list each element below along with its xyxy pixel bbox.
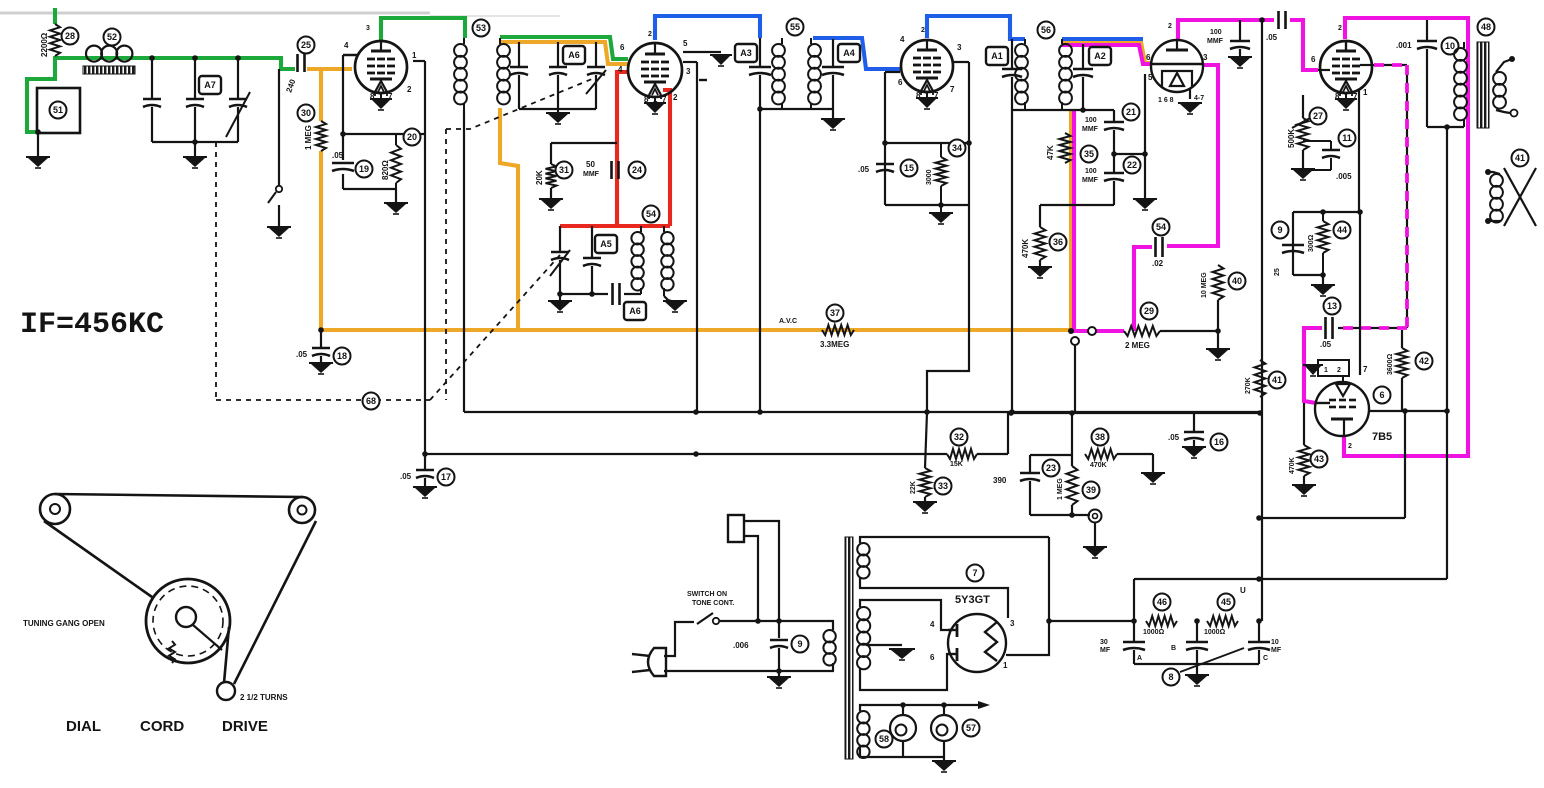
- svg-text:30: 30: [1100, 639, 1108, 646]
- svg-text:25: 25: [301, 40, 311, 50]
- ref circle 9: [792, 636, 809, 653]
- IF transformer 53 primary coil: [454, 44, 467, 57]
- svg-text:5Y3GT: 5Y3GT: [955, 594, 990, 606]
- box label A1: [986, 47, 1008, 65]
- svg-text:3000: 3000: [926, 169, 933, 185]
- svg-text:A5: A5: [600, 239, 612, 249]
- svg-text:A3: A3: [740, 48, 752, 58]
- svg-text:2: 2: [1348, 443, 1352, 450]
- resistor R39 1MEG: [1071, 413, 1073, 466]
- svg-text:1000Ω: 1000Ω: [1204, 629, 1226, 636]
- capacitor C11 .005: [1303, 140, 1331, 142]
- output jack connector: [1072, 514, 1090, 516]
- filter bottom rail and ground: [1134, 663, 1259, 665]
- svg-text:2 MEG: 2 MEG: [1125, 341, 1150, 350]
- resistor R42 3600 ohm: [1401, 330, 1403, 348]
- pilot lamp 57: [931, 715, 957, 741]
- V3 screen jog to B- rail: [927, 330, 969, 412]
- svg-text:A: A: [1137, 655, 1142, 662]
- svg-text:10: 10: [1271, 639, 1279, 646]
- resistor R45 1000 ohm: [1207, 616, 1238, 626]
- ref circle 48: [1478, 19, 1495, 36]
- ref circle 23: [1043, 460, 1060, 477]
- phono jack box: [728, 515, 744, 542]
- IF53 cap bottom rail with ground: [519, 108, 596, 110]
- switch to ground: [278, 69, 280, 185]
- svg-text:15: 15: [904, 163, 914, 173]
- svg-text:1: 1: [1324, 367, 1328, 374]
- oscillator coil 54 primary: [631, 232, 643, 244]
- svg-text:470K: 470K: [1090, 462, 1107, 469]
- ref circle 41: [1269, 372, 1286, 389]
- ref circle 6: [1374, 387, 1391, 404]
- svg-text:3: 3: [1010, 619, 1015, 628]
- oscillator padder capacitor series: [560, 293, 608, 295]
- svg-text:57: 57: [966, 723, 976, 733]
- svg-text:A7: A7: [204, 80, 216, 90]
- ref circle 24: [629, 162, 646, 179]
- svg-text:54: 54: [1156, 222, 1166, 232]
- switch to transformer wire: [719, 620, 834, 622]
- svg-text:7: 7: [972, 568, 977, 578]
- ref circle 55: [787, 19, 804, 36]
- box label A5: [595, 235, 617, 253]
- ref circle 43: [1311, 451, 1328, 468]
- svg-text:22K: 22K: [910, 481, 917, 494]
- ref circle 52: [104, 29, 121, 46]
- svg-text:SWITCH ON: SWITCH ON: [687, 591, 727, 598]
- AVC resistor R37 3.3MEG: [822, 325, 854, 335]
- fixed capacitor oscillator x592: [591, 226, 593, 257]
- oscillator coil 54 secondary: [661, 232, 673, 244]
- power switch: [713, 618, 719, 624]
- dial cord drive right pulley: [289, 497, 315, 523]
- wire orange AVC bus horizontal: [321, 328, 1071, 332]
- svg-text:MMF: MMF: [583, 171, 600, 178]
- svg-text:18: 18: [337, 351, 347, 361]
- svg-text:35: 35: [1084, 149, 1094, 159]
- rectifier output to filter: [1006, 537, 1049, 655]
- svg-text:8: 8: [1168, 672, 1173, 682]
- svg-text:50: 50: [586, 160, 595, 169]
- output transformer secondary: [1493, 72, 1506, 85]
- tube V3 IF amplifier: [901, 40, 953, 92]
- resistor R29 2MEG volume control: [1124, 326, 1160, 336]
- capacitor C17 .05: [424, 454, 426, 469]
- IF transformer 53 secondary coil: [497, 44, 510, 57]
- ref circle 19: [356, 161, 373, 178]
- ref circle 16: [1211, 434, 1228, 451]
- wire orange IF53 secondary return: [500, 108, 518, 329]
- ground under coil 54 secondary: [664, 296, 675, 302]
- svg-text:.05: .05: [858, 165, 870, 174]
- filter cap A 30MF: [1133, 621, 1135, 641]
- capacitor IF56 secondary side A2: [1082, 44, 1084, 68]
- svg-text:55: 55: [790, 22, 800, 32]
- svg-text:100: 100: [1210, 29, 1222, 36]
- speaker voice coil 41: [1490, 174, 1503, 187]
- HV center tap ground: [866, 644, 902, 646]
- svg-text:MF: MF: [1271, 647, 1282, 654]
- resistor R38 470K: [1085, 449, 1117, 459]
- svg-text:A.V.C: A.V.C: [779, 318, 797, 325]
- ref circle 35: [1081, 146, 1098, 163]
- svg-text:13: 13: [1327, 301, 1337, 311]
- capacitor C15 .05: [876, 163, 894, 166]
- ref circle 41 speaker: [1512, 150, 1529, 167]
- svg-text:4: 4: [900, 35, 905, 44]
- svg-text:3600Ω: 3600Ω: [1387, 353, 1394, 375]
- svg-text:36: 36: [1053, 237, 1063, 247]
- IF transformer 55 primary coil: [772, 44, 785, 57]
- ground below antenna box: [37, 132, 39, 158]
- svg-text:1 MEG: 1 MEG: [1057, 478, 1064, 500]
- tube V4 detector first audio: [1151, 40, 1203, 92]
- svg-text:33: 33: [938, 481, 948, 491]
- capacitor IF55 primary side: [759, 38, 761, 66]
- wire orange IF56 return to AVC: [1069, 110, 1073, 330]
- svg-text:6: 6: [1311, 55, 1316, 64]
- svg-text:39: 39: [1086, 485, 1096, 495]
- capacitor C22 100MMF: [1113, 154, 1115, 172]
- ref circle 13: [1324, 298, 1341, 315]
- capacitor 100MMF detector plate: [1239, 20, 1241, 40]
- antenna box 51: [37, 88, 80, 133]
- svg-text:9: 9: [1277, 225, 1282, 235]
- svg-text:.006: .006: [733, 641, 749, 650]
- power transformer core: [845, 537, 853, 759]
- capacitor C23 390MMF: [1029, 455, 1031, 472]
- wire x464 long vertical to B- rail: [463, 110, 465, 412]
- ref circle 28: [62, 28, 79, 45]
- ref circle 46: [1154, 594, 1171, 611]
- svg-text:4: 4: [618, 65, 623, 74]
- ref circle 11: [1339, 130, 1356, 147]
- filter network rails: [1134, 578, 1447, 580]
- svg-text:2: 2: [1168, 23, 1172, 30]
- svg-text:4: 4: [930, 620, 935, 629]
- capacitor C9 .006 line: [778, 621, 780, 638]
- svg-text:6: 6: [898, 78, 903, 87]
- svg-text:6: 6: [930, 653, 935, 662]
- svg-text:17: 17: [441, 472, 451, 482]
- svg-text:56: 56: [1041, 25, 1051, 35]
- svg-text:390: 390: [993, 476, 1007, 485]
- capacitor to ground x195: [194, 58, 196, 99]
- svg-text:40: 40: [1232, 276, 1242, 286]
- bus y454: [425, 453, 947, 455]
- wire orange AVC vertical from resistor 30: [319, 151, 323, 330]
- svg-text:6: 6: [620, 43, 625, 52]
- resistor R20 820 ohm cathode: [391, 145, 401, 183]
- svg-text:A6: A6: [568, 50, 580, 60]
- resistor R32 15K: [947, 449, 977, 459]
- variable tuning capacitor x238: [237, 58, 239, 99]
- svg-text:25: 25: [1274, 268, 1281, 276]
- tuning gang dashed diagonal oscillator: [430, 255, 560, 400]
- svg-text:46: 46: [1157, 597, 1167, 607]
- ref circle 29: [1141, 303, 1158, 320]
- svg-text:MMF: MMF: [1207, 38, 1224, 45]
- V5 cathode network: [1358, 90, 1360, 212]
- svg-text:1: 1: [1363, 88, 1368, 97]
- resistor R46 1000 ohm: [1146, 616, 1177, 626]
- jog up x1008: [1007, 413, 1009, 454]
- V3 cathode network: [885, 71, 900, 73]
- resistor R28 2200 ohm antenna: [50, 24, 60, 56]
- wire magenta coupling cap 13 to 7B5 grid: [1304, 328, 1322, 403]
- wire green IF53 secondary to V2 grid: [500, 37, 628, 59]
- svg-text:6: 6: [1379, 390, 1384, 400]
- svg-text:10: 10: [1445, 41, 1455, 51]
- IF transformer 56 secondary coil: [1059, 44, 1072, 57]
- svg-text:.005: .005: [1336, 172, 1352, 181]
- tube V5 second audio: [1320, 41, 1372, 93]
- capacitor C10 .001: [1426, 20, 1428, 40]
- 7B5 plate line: [1369, 410, 1448, 412]
- wire magenta detector return to volume control: [1074, 110, 1124, 331]
- svg-text:.05: .05: [332, 151, 344, 160]
- wire orange V2 grid feed: [500, 42, 628, 64]
- svg-text:A6: A6: [629, 306, 641, 316]
- ref circle 45: [1218, 594, 1235, 611]
- svg-text:A1: A1: [991, 51, 1003, 61]
- svg-text:2: 2: [1337, 367, 1341, 374]
- ref circle 40: [1229, 273, 1246, 290]
- ground under oscillator variable cap: [559, 294, 561, 302]
- power transformer primary coil: [823, 630, 835, 642]
- wire orange IF56 to detector grid: [1062, 42, 1152, 63]
- minus sign: [699, 79, 707, 81]
- svg-text:41: 41: [1515, 153, 1525, 163]
- svg-text:.05: .05: [296, 350, 308, 359]
- HV winding: [857, 607, 870, 620]
- svg-text:2: 2: [407, 85, 412, 94]
- capacitor IF56 primary side: [1011, 39, 1013, 68]
- svg-text:30: 30: [301, 108, 311, 118]
- ref circle 27: [1310, 108, 1327, 125]
- variable capacitor oscillator section x560: [559, 226, 561, 251]
- svg-text:MMF: MMF: [1082, 177, 1099, 184]
- svg-text:6: 6: [1146, 53, 1151, 62]
- power plug: [648, 648, 666, 676]
- box label A6: [563, 46, 585, 64]
- svg-text:.05: .05: [1168, 433, 1180, 442]
- cathode box bottom rail and ground: [343, 188, 396, 190]
- wire x1447 B+ to filter: [1446, 127, 1448, 579]
- bottom rail of antenna caps: [152, 141, 238, 143]
- capacitor C24 50MMF: [610, 161, 613, 179]
- resistor R31 20K oscillator: [546, 164, 557, 188]
- capacitor C25 240 series grid cap: [296, 54, 299, 72]
- svg-text:3: 3: [686, 67, 691, 76]
- svg-text:2: 2: [673, 93, 678, 102]
- svg-text:43: 43: [1314, 454, 1324, 464]
- svg-text:TONE CONT.: TONE CONT.: [692, 600, 734, 607]
- filter cap B: [1196, 621, 1198, 641]
- output transformer 48 core: [1477, 42, 1489, 128]
- box label A3: [735, 44, 757, 62]
- wire V1 plate-return vertical x425: [413, 60, 425, 62]
- dial cord drive drum: [146, 579, 230, 663]
- tuning gang dashed link left section: [215, 142, 217, 400]
- capacitor to ground x152: [151, 58, 153, 99]
- resistor R33 22K: [925, 412, 927, 468]
- ref circle 9 bias cap: [1272, 222, 1289, 239]
- wire orange V1 grid net: [307, 67, 352, 71]
- svg-text:500K: 500K: [1287, 129, 1296, 148]
- svg-text:3: 3: [366, 25, 370, 32]
- svg-text:.05: .05: [1266, 33, 1278, 42]
- svg-text:32: 32: [954, 432, 964, 442]
- svg-text:1 MEG: 1 MEG: [304, 125, 313, 150]
- svg-text:28: 28: [65, 31, 75, 41]
- svg-text:10 MEG: 10 MEG: [1201, 272, 1208, 298]
- svg-text:19: 19: [359, 164, 369, 174]
- wire B+ vertical x1260: [1261, 20, 1263, 621]
- svg-text:A4: A4: [843, 48, 855, 58]
- IF transformer 56 primary coil: [1015, 44, 1028, 57]
- svg-text:7: 7: [950, 85, 955, 94]
- ref circle 31: [556, 162, 573, 179]
- svg-text:820Ω: 820Ω: [381, 160, 390, 180]
- svg-text:9: 9: [797, 639, 802, 649]
- svg-text:27: 27: [1313, 111, 1323, 121]
- detector network bottom rail: [1040, 204, 1114, 206]
- svg-text:A2: A2: [1094, 51, 1106, 61]
- electrolytic cap 25MF bias: [1282, 244, 1304, 247]
- svg-text:MF: MF: [1100, 647, 1111, 654]
- wire blue IF55 secondary to V3 grid: [813, 38, 900, 69]
- svg-text:5: 5: [1148, 73, 1153, 82]
- resistor R34 3000 ohm: [936, 157, 947, 186]
- ref circle 33: [935, 478, 952, 495]
- ref circle 32: [951, 429, 968, 446]
- capacitor .05 series in detector output: [1277, 11, 1280, 29]
- loop antenna coil 52: [86, 46, 102, 62]
- rectifier filament winding: [857, 543, 869, 555]
- ref circle 10: [1442, 38, 1459, 55]
- V1 cathode network box: [343, 54, 357, 57]
- svg-text:1: 1: [412, 51, 417, 60]
- svg-text:MMF: MMF: [1082, 126, 1099, 133]
- svg-text:22: 22: [1127, 160, 1137, 170]
- ref circle 21: [1123, 104, 1140, 121]
- V5 cathode bottom rail ground: [1293, 274, 1323, 276]
- svg-text:.001: .001: [1396, 41, 1412, 50]
- svg-text:IF=456KC: IF=456KC: [20, 308, 164, 342]
- svg-text:29: 29: [1144, 306, 1154, 316]
- svg-text:21: 21: [1126, 107, 1136, 117]
- box label A4: [838, 44, 860, 62]
- wire green antenna net: [53, 8, 57, 24]
- svg-text:3: 3: [957, 43, 962, 52]
- tuning gang dashed horizontal with ref 68: [216, 399, 430, 401]
- svg-text:470K: 470K: [1289, 457, 1296, 474]
- wire blue V3 plate to IF transformer 56: [927, 16, 1025, 39]
- svg-text:2: 2: [921, 27, 925, 34]
- svg-text:4: 4: [344, 41, 349, 50]
- tuning gang dashed diagonal to IF53 trimmer: [446, 79, 592, 129]
- ref circle 44: [1334, 222, 1351, 239]
- dial cord belt: [55, 494, 303, 497]
- wire red V2 oscillator anode to coil 54: [663, 90, 670, 226]
- svg-text:52: 52: [107, 32, 117, 42]
- svg-text:2200Ω: 2200Ω: [40, 32, 49, 57]
- resistor R41 270K: [1255, 360, 1266, 397]
- capacitor x519 IF53: [518, 42, 520, 66]
- svg-text:7: 7: [1363, 365, 1368, 374]
- svg-text:48: 48: [1481, 22, 1491, 32]
- wire x760 vertical to B- rail: [759, 109, 761, 412]
- ref circle 58: [876, 731, 893, 748]
- bus y413 right: [1008, 412, 1260, 414]
- V2 screen wire and ground right: [683, 51, 721, 53]
- svg-text:16: 16: [1214, 437, 1224, 447]
- wire blue V2 plate to IF transformer 55: [655, 16, 760, 40]
- svg-text:44: 44: [1337, 225, 1347, 235]
- IF55 bottom rail: [760, 108, 833, 110]
- svg-text:4-7: 4-7: [1194, 95, 1204, 102]
- V3 cathode bottom rail and ground: [885, 204, 969, 206]
- B- bus y412: [464, 411, 1260, 413]
- box label A2: [1089, 47, 1111, 65]
- wire green tube V1 plate to IF transformer 53: [381, 18, 465, 40]
- capacitor C21 100MMF: [1113, 110, 1115, 121]
- pilot lamp 58: [890, 715, 916, 741]
- faint top border line: [0, 12, 430, 15]
- ref circle 54 oscillator: [643, 206, 660, 223]
- ground under detector tube: [1180, 104, 1200, 113]
- svg-text:47K: 47K: [1046, 145, 1055, 160]
- svg-text:.05: .05: [400, 472, 412, 481]
- svg-text:31: 31: [559, 165, 569, 175]
- svg-text:100: 100: [1085, 117, 1097, 124]
- ref circle 8 common can: [1163, 669, 1180, 686]
- svg-text:37: 37: [830, 308, 840, 318]
- plug wiring to switch: [664, 622, 694, 656]
- ref circle 30: [298, 105, 315, 122]
- svg-text:53: 53: [476, 23, 486, 33]
- ref circle 36: [1050, 234, 1067, 251]
- svg-text:TUNING GANG OPEN: TUNING GANG OPEN: [23, 619, 105, 628]
- resistor R36 470K: [1039, 205, 1041, 227]
- wire magenta IF56 to detector diode: [1062, 45, 1152, 64]
- V5 grid line exits: [1318, 69, 1330, 71]
- detector cathode rail: [1114, 153, 1145, 155]
- ref circle 56: [1038, 22, 1055, 39]
- svg-text:20K: 20K: [535, 170, 544, 185]
- svg-text:7B5: 7B5: [1372, 431, 1392, 443]
- ref circle 18: [334, 348, 351, 365]
- resistor R43 470K grid return: [1303, 403, 1305, 445]
- output transformer 48 primary: [1454, 48, 1467, 61]
- ref circle 7: [967, 565, 984, 582]
- resistor R30 1 MEG: [316, 121, 326, 151]
- svg-text:5: 5: [683, 39, 688, 48]
- wire x1405 7B5 screen to rail y518: [1404, 411, 1406, 518]
- ref circle 17: [438, 469, 455, 486]
- ref circle 57: [963, 720, 980, 737]
- svg-text:58: 58: [879, 734, 889, 744]
- svg-text:2 1/2 TURNS: 2 1/2 TURNS: [240, 693, 288, 702]
- svg-text:34: 34: [952, 143, 962, 153]
- svg-text:DIAL: DIAL: [66, 718, 101, 735]
- dial cord drive left pulley: [40, 494, 70, 524]
- svg-text:15K: 15K: [950, 461, 963, 468]
- svg-text:270K: 270K: [1245, 377, 1252, 394]
- ref circle 42: [1416, 353, 1433, 370]
